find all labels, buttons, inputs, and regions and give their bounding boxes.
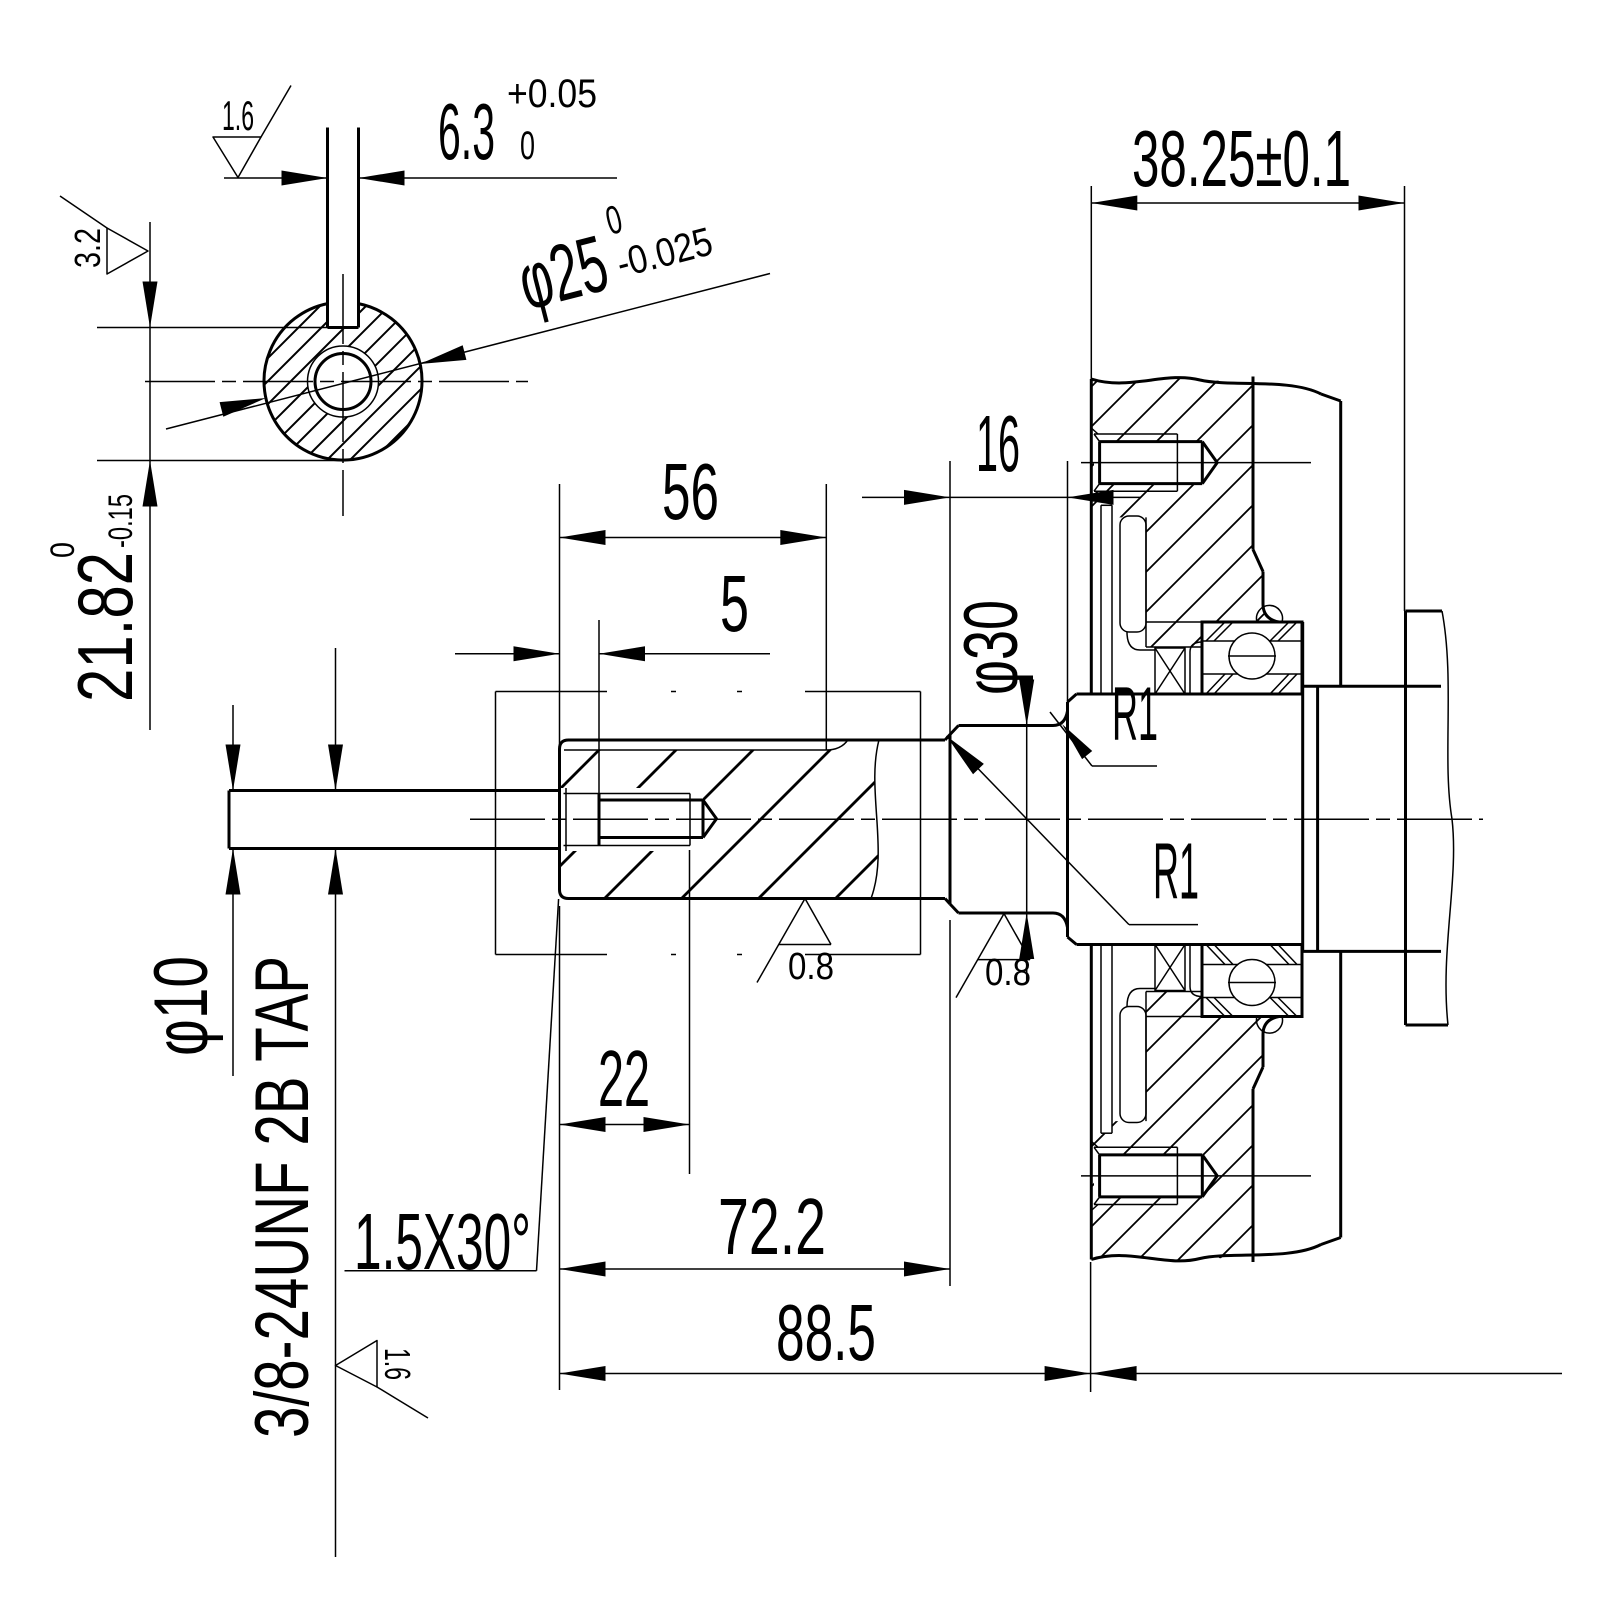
bearing bore line bottom: [1146, 1016, 1202, 1018]
dimension phi30: [1026, 695, 1028, 982]
bearing bore line: [1146, 621, 1202, 623]
bottom screw centerline: [1081, 1175, 1311, 1177]
fillet R1 bottom: [1053, 913, 1068, 928]
top screw head white: [1094, 434, 1100, 491]
svg-text:5: 5: [720, 559, 749, 648]
hatch crankcase top: [788, 370, 1548, 650]
R1 leader lower: [947, 736, 1130, 925]
dimension 72.2: [949, 920, 951, 1286]
R1 leader upper: [1050, 712, 1092, 766]
flywheel (broken): [1404, 611, 1407, 1025]
svg-text:16: 16: [976, 399, 1020, 488]
screw head face: [1098, 442, 1101, 484]
hatch crankcase bottom: [770, 988, 1530, 1268]
chamfer callout 1.5X30: [537, 899, 559, 1271]
tapped hole major circle: [308, 346, 379, 417]
dimension 22: [689, 850, 691, 1174]
crankshaft flange: [1066, 702, 1069, 937]
svg-text:6.3: 6.3: [438, 87, 495, 176]
dimension 21.82 0/-0.15: [149, 222, 151, 730]
circle view vertical centerline: [342, 274, 344, 516]
tapped hole cavity white: [559, 788, 717, 851]
dimension 56: [559, 484, 561, 749]
screw cone point: [1202, 442, 1217, 484]
keyway extent phantom box: [495, 692, 497, 955]
svg-text:22: 22: [598, 1034, 650, 1123]
crankcase top break line: [1091, 378, 1321, 394]
keyway slot white: [328, 294, 359, 328]
svg-text:φ10: φ10: [139, 956, 224, 1056]
shaft phi25 outline: [560, 740, 569, 899]
svg-text:R1: R1: [1153, 827, 1199, 916]
ball white: [1229, 633, 1275, 679]
crankcase left face bottom: [1090, 945, 1093, 1260]
svg-text:1.6: 1.6: [377, 1348, 418, 1380]
svg-text:-0.15: -0.15: [102, 494, 140, 548]
svg-text:+0.05: +0.05: [507, 72, 597, 116]
thread callout 3/8-24UNF 2B TAP: [335, 648, 337, 791]
bottom screw head white: [1094, 1147, 1100, 1204]
ball bearing bottom: [1202, 945, 1302, 1017]
ball arc below bearing: [1256, 1017, 1282, 1034]
oil seal bottom: [1120, 1007, 1146, 1123]
stud phi10: [229, 789, 560, 792]
svg-text:1.6: 1.6: [222, 92, 254, 139]
svg-text:3/8-24UNF 2B TAP: 3/8-24UNF 2B TAP: [240, 956, 325, 1438]
shaft outer circle phi25: [264, 304, 422, 460]
seal ring X bottom: [1155, 945, 1185, 991]
crankcase left face top: [1090, 379, 1093, 694]
svg-text:3.2: 3.2: [67, 228, 108, 268]
keyway slot left edge: [326, 128, 329, 328]
hatch shaft section: [370, 735, 999, 902]
dimension 5: [598, 620, 600, 794]
seal ring X top: [1155, 648, 1185, 694]
step face phi25/phi30: [949, 735, 952, 905]
ball top: [1229, 633, 1275, 679]
broken-out section wavy line: [871, 740, 879, 899]
dimension 88.5: [559, 906, 561, 1390]
crankcase inner wall bottom: [1252, 1089, 1255, 1262]
hub top silhouette: [1303, 685, 1441, 688]
ball bottom: [1229, 960, 1275, 1006]
top screw body white: [1100, 442, 1218, 484]
main centerline: [470, 818, 1483, 820]
surface finish 1.6 (bottom left): [336, 1341, 378, 1388]
svg-text:21.82: 21.82: [61, 552, 149, 702]
seal retainer strip top: [1100, 505, 1102, 694]
keyway slot bottom edge: [328, 326, 359, 329]
circle view horizontal centerline: [145, 381, 528, 383]
keyway slot bottom line: [564, 740, 848, 750]
surface finish 0.8 on journal: [956, 914, 1004, 998]
top screw centerline: [1081, 462, 1311, 464]
dimension phi10: [232, 705, 234, 791]
extension line circle bottom: [97, 460, 343, 462]
tapped hole minor circle: [315, 354, 371, 410]
svg-text:φ30: φ30: [949, 600, 1034, 695]
svg-text:72.2: 72.2: [718, 1182, 826, 1271]
dimension 6.3 +0.05/0: [224, 177, 328, 179]
chamfer step bottom: [945, 899, 950, 905]
svg-text:R1: R1: [1112, 672, 1158, 757]
svg-text:0.8: 0.8: [985, 952, 1031, 994]
seal collar top: [1190, 642, 1202, 694]
seal retainer strip bottom: [1100, 945, 1102, 1134]
keyway slot right edge: [357, 128, 360, 328]
journal phi30: [950, 726, 959, 735]
svg-text:88.5: 88.5: [776, 1288, 876, 1377]
crankcase bottom break line: [1091, 1245, 1321, 1261]
surface finish symbol 3.2 (left): [107, 228, 148, 274]
set screw top: [1094, 433, 1177, 435]
seal bore shoulder: [1145, 517, 1147, 647]
dimension 16: [949, 461, 951, 735]
dimension 38.25: [1090, 186, 1092, 379]
bearing right face / hub face: [1301, 622, 1304, 951]
tapped hole white: [308, 346, 379, 417]
extension line keyway depth top: [97, 327, 328, 329]
crankcase outer wall bottom: [1339, 951, 1342, 1237]
crankcase outer wall top: [1339, 401, 1342, 686]
drill point: [703, 800, 717, 838]
ball arc above bearing: [1257, 605, 1283, 622]
hatch circle section: [96, 302, 577, 461]
svg-text:0: 0: [44, 542, 82, 558]
dimension phi25 0/-0.025 leader: [166, 274, 770, 430]
oil seal top: [1120, 516, 1146, 632]
hole entry chamfer: [565, 788, 567, 851]
tapped hole 3/8-24UNF: [564, 793, 691, 795]
chamfer step top: [945, 735, 950, 741]
ball white bottom: [1229, 960, 1275, 1006]
ball bearing top: [1202, 622, 1302, 694]
seal collar bottom: [1190, 945, 1202, 997]
svg-text:38.25±0.1: 38.25±0.1: [1132, 114, 1351, 203]
hub bottom silhouette: [1303, 950, 1441, 953]
surface finish symbol 1.6 (keyway): [213, 137, 261, 178]
svg-text:0: 0: [520, 124, 535, 168]
bottom screw body white: [1100, 1155, 1218, 1197]
surface finish 0.8 on shaft: [757, 899, 805, 983]
fillet R1 top: [1053, 711, 1068, 726]
web step face: [1316, 686, 1319, 951]
flywheel break wavy: [1442, 611, 1454, 1025]
svg-text:56: 56: [662, 447, 719, 536]
set screw bottom: [1094, 1204, 1177, 1206]
thread start: [598, 794, 601, 846]
svg-text:1.5X30°: 1.5X30°: [354, 1197, 531, 1286]
crankcase inner wall top: [1252, 377, 1255, 550]
svg-text:0.8: 0.8: [788, 946, 834, 988]
